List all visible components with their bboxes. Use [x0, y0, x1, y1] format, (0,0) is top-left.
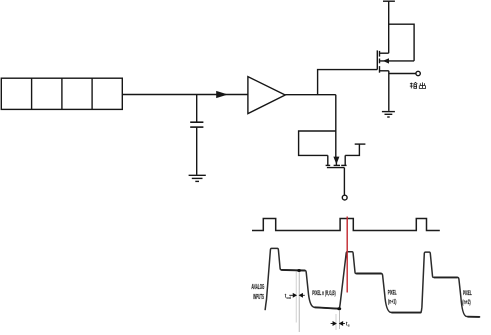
svg-text:ts: ts: [346, 321, 350, 327]
bias rail bar: [355, 143, 366, 145]
node dot 1: [297, 269, 301, 272]
measurement line B: [298, 272, 300, 333]
shift register box: [1, 78, 122, 109]
ground GND1: [189, 175, 206, 181]
wire Q1 source down: [388, 71, 390, 111]
t_od annotation arrows: [289, 294, 305, 297]
wire down to Q2: [335, 95, 337, 158]
svg-text:(n+2): (n+2): [462, 300, 470, 306]
transistor Q2: [326, 155, 347, 167]
reset clock waveform: [252, 219, 440, 231]
measurement line C: [335, 314, 337, 330]
measurement line A: [295, 271, 297, 322]
wire to output terminal: [389, 73, 416, 75]
label PIXEL (n+2): [462, 291, 472, 306]
wire Q2 source to bias: [345, 144, 359, 155]
signal flow arrow: [216, 91, 228, 98]
wire gate feed to Q1: [318, 70, 378, 95]
wire Q1 body loop box: [389, 24, 414, 61]
measurement line D: [338, 311, 340, 330]
arrow into Q2 body: [333, 157, 339, 165]
t_s annotation arrows: [331, 322, 345, 325]
supply rail bar: [383, 0, 395, 2]
reset gate terminal: [342, 195, 347, 200]
wire register to amp: [122, 94, 248, 96]
op-amp buffer A1: [248, 77, 285, 114]
wire Q2 gate down: [343, 168, 345, 196]
transistor Q1: [377, 50, 414, 72]
svg-text:PIXEL: PIXEL: [463, 291, 472, 297]
label ANALOG INPUTS: [251, 284, 264, 301]
wire Q2 drain loop box: [299, 131, 336, 155]
wire Q1 drain to supply: [388, 1, 390, 53]
analog output waveform: [265, 248, 480, 317]
svg-text:(n+1): (n+1): [388, 300, 396, 306]
wire amp output: [285, 94, 336, 96]
label 输出 (output): [410, 82, 426, 88]
ground GND2: [382, 112, 395, 117]
svg-text:PIXEL: PIXEL: [388, 291, 397, 297]
label PIXEL (n+1): [388, 291, 397, 306]
svg-text:tod: tod: [285, 294, 292, 300]
svg-text:INPUTS: INPUTS: [253, 294, 264, 301]
sampling marker (red): [346, 217, 348, 293]
svg-text:PIXEL n (R,G,B): PIXEL n (R,G,B): [312, 290, 335, 297]
output terminal: [416, 71, 420, 75]
node dot 2: [337, 307, 341, 310]
capacitor C1: [190, 95, 203, 175]
svg-text:ANALOG: ANALOG: [251, 284, 264, 291]
arrow into Q1 body: [383, 58, 389, 63]
plateau emphasis strokes: [281, 270, 479, 317]
